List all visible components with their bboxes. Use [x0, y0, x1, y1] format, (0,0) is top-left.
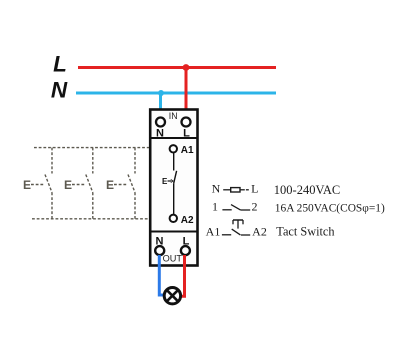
svg-text:N: N — [156, 128, 164, 140]
svg-text:E: E — [64, 178, 72, 192]
svg-text:E: E — [23, 178, 31, 192]
svg-text:E: E — [106, 178, 114, 192]
svg-text:A1: A1 — [206, 225, 221, 239]
svg-text:16A 250VAC(COSφ=1): 16A 250VAC(COSφ=1) — [275, 203, 385, 215]
svg-text:L: L — [53, 52, 67, 77]
svg-text:100-240VAC: 100-240VAC — [274, 183, 340, 197]
svg-text:N: N — [212, 182, 221, 196]
svg-text:IN: IN — [169, 111, 178, 121]
svg-text:1: 1 — [212, 200, 218, 214]
svg-text:OUT: OUT — [163, 254, 183, 264]
svg-text:L: L — [183, 128, 190, 140]
svg-text:E: E — [162, 177, 168, 186]
svg-text:N: N — [51, 77, 68, 102]
svg-text:2: 2 — [252, 200, 258, 214]
svg-text:A2: A2 — [252, 225, 267, 239]
svg-text:L: L — [251, 182, 258, 196]
svg-text:A2: A2 — [181, 215, 194, 226]
svg-text:A1: A1 — [181, 145, 194, 156]
svg-text:Tact Switch: Tact Switch — [276, 225, 334, 239]
